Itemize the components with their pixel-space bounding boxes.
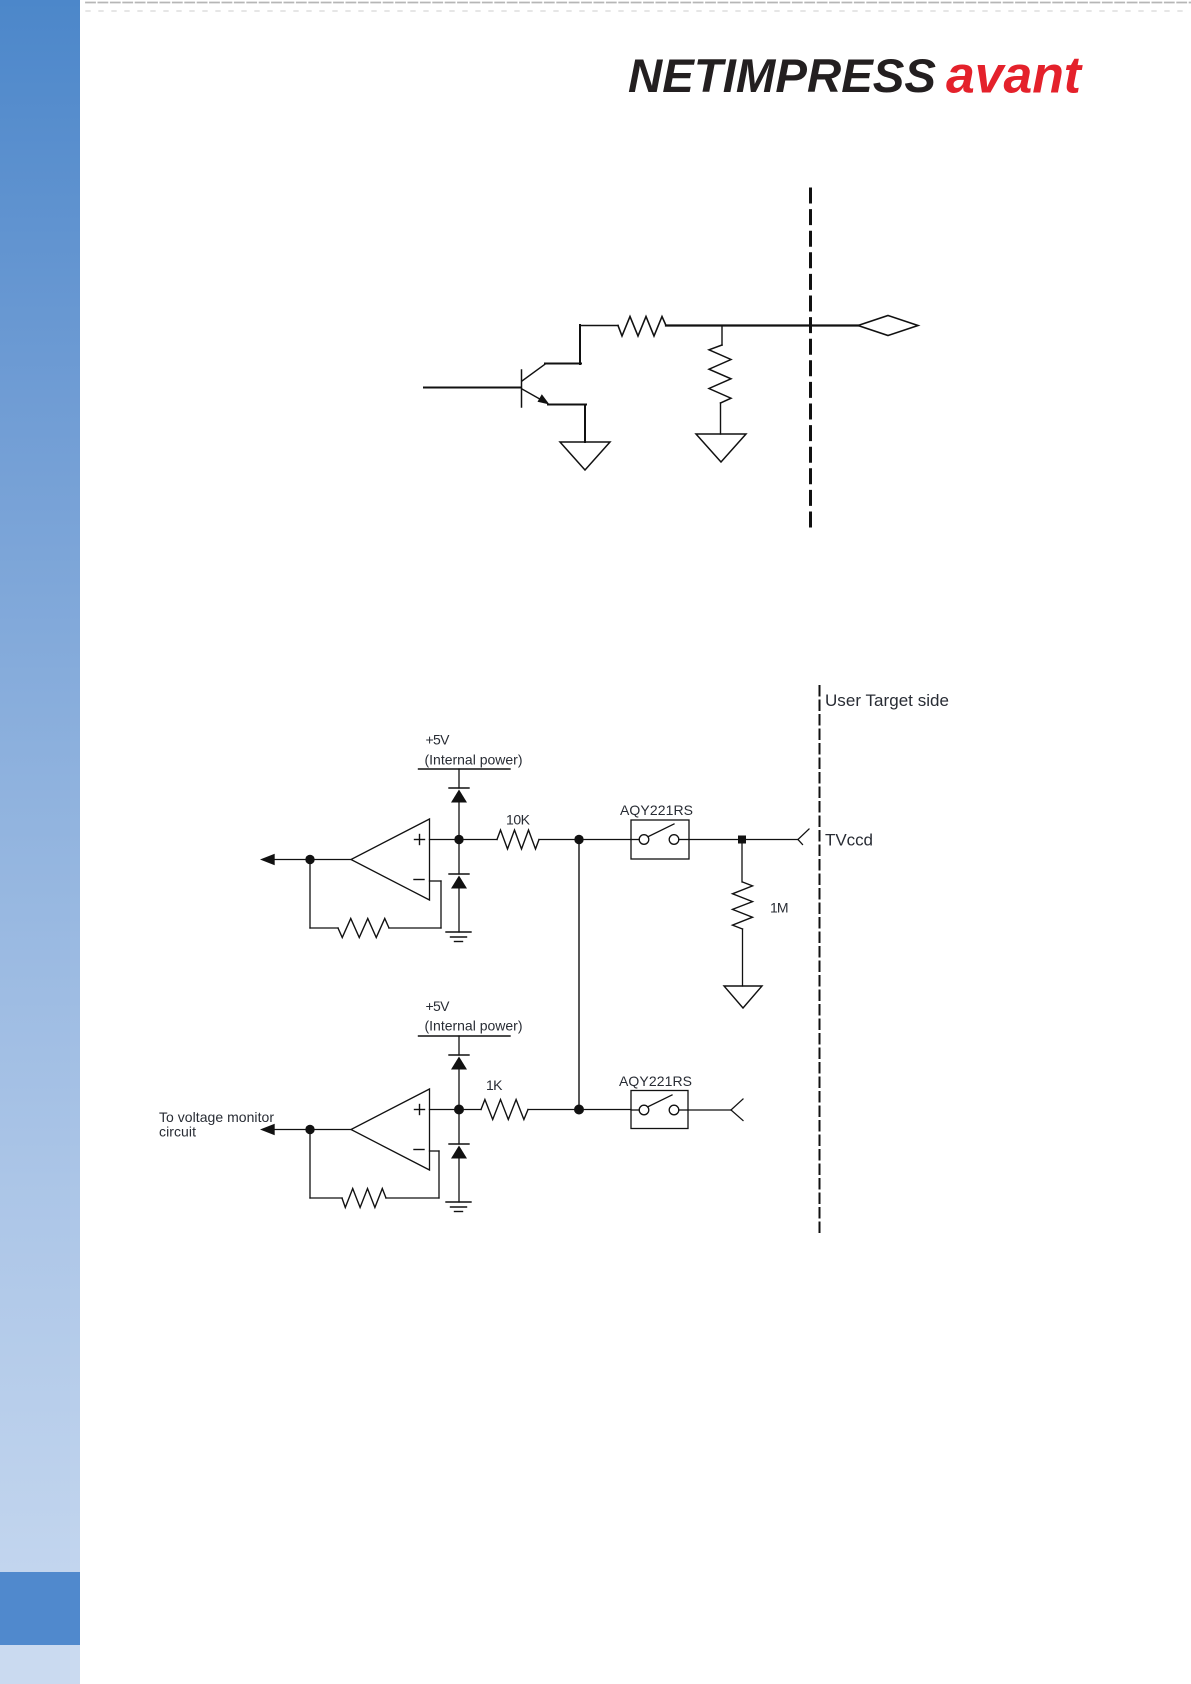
transistor Q1 base bar xyxy=(521,370,523,407)
svg-text:User Target side: User Target side xyxy=(825,691,949,710)
boundary dashed line (circuit 1) xyxy=(809,189,812,529)
sidebar gradient bar xyxy=(0,0,80,1572)
resistor R2 (pull-down, vertical) xyxy=(709,345,731,403)
diode D3 (clamp to +5V) xyxy=(449,1055,469,1105)
wire junction drop xyxy=(721,326,723,346)
logo NETIMPRESS avant xyxy=(0,0,1191,140)
node A (+input junction) xyxy=(454,835,463,844)
diode D4 (clamp to GND) xyxy=(449,1114,469,1202)
+5V power rail (upper) xyxy=(419,768,511,770)
wire emitter run xyxy=(548,405,586,443)
wire -input stub xyxy=(430,880,442,882)
ground (earth) under D4 xyxy=(446,1202,471,1212)
wire base input xyxy=(424,387,521,389)
ground (chassis triangle) under 1M xyxy=(724,986,762,1008)
sidebar bottom light block xyxy=(0,1645,80,1684)
node B (output junction) xyxy=(305,855,314,864)
ground (earth) under D2 xyxy=(446,932,471,942)
node D (1M junction, square) xyxy=(738,836,746,844)
resistor R6 (feedback U3) xyxy=(342,1189,386,1208)
svg-text:circuit: circuit xyxy=(159,1124,196,1140)
wire collector up xyxy=(580,325,618,364)
svg-text:1K: 1K xyxy=(486,1077,503,1093)
resistor R7 1K xyxy=(459,1100,579,1120)
node C (mid junction) xyxy=(574,835,583,844)
op-amp U1 minus xyxy=(414,879,424,881)
wire op-amp output xyxy=(310,859,351,861)
wire 1M branch xyxy=(741,840,743,883)
svg-text:(Internal power): (Internal power) xyxy=(425,751,523,767)
diode D1 (clamp to +5V) xyxy=(449,788,469,835)
pin TVccd chevron xyxy=(798,829,809,845)
wire to relay xyxy=(579,839,631,841)
node E (+input junction lower) xyxy=(454,1105,464,1115)
transistor Q1 emitter with arrow xyxy=(522,389,550,405)
feedback loop wires U3 xyxy=(310,1130,439,1199)
op-amp U1 triangle xyxy=(351,819,430,900)
wire rail stem xyxy=(458,769,460,788)
wire -input stub lower xyxy=(430,1150,440,1152)
wire bus between stages xyxy=(578,840,580,1111)
sidebar dark footer block xyxy=(0,1572,80,1645)
ground (chassis triangle) under emitter xyxy=(560,442,610,470)
node F (output junction lower) xyxy=(305,1125,314,1134)
op-amp U1 plus xyxy=(415,835,425,845)
svg-text:1M: 1M xyxy=(770,900,789,916)
svg-text:+5V: +5V xyxy=(426,732,451,748)
wire +input stub xyxy=(430,839,460,841)
pin chevron lower xyxy=(731,1099,743,1121)
diode D2 (clamp to GND) xyxy=(449,844,469,932)
svg-text:TVccd: TVccd xyxy=(825,831,873,850)
arrow out (to internal circuit) xyxy=(260,854,275,865)
wire to relay lower xyxy=(579,1109,631,1111)
svg-text:avant: avant xyxy=(946,47,1084,105)
wire 1M to ground xyxy=(742,929,744,986)
resistor R3 (feedback U1) xyxy=(338,919,389,938)
svg-text:+5V: +5V xyxy=(426,998,451,1014)
resistor R1 (series, horizontal) xyxy=(618,317,666,337)
arrow out (to voltage monitor) xyxy=(260,1124,275,1135)
+5V power rail (lower) xyxy=(419,1035,511,1037)
svg-text:AQY221RS: AQY221RS xyxy=(620,802,693,818)
svg-text:(Internal power): (Internal power) xyxy=(425,1017,523,1033)
op-amp U3 minus xyxy=(414,1149,424,1151)
wire to arrow lower xyxy=(264,1129,310,1131)
resistor R4 10K xyxy=(459,830,579,849)
boundary dashed line (circuit 2) xyxy=(819,686,821,1234)
relay U4 AQY221RS box xyxy=(631,1091,688,1129)
wire op-amp output lower xyxy=(310,1129,351,1131)
wire relay to target xyxy=(689,839,798,841)
op-amp U3 plus xyxy=(415,1105,425,1115)
wire to connector xyxy=(666,324,858,326)
wire +input stub lower xyxy=(430,1109,460,1111)
transistor Q1 collector xyxy=(522,364,581,382)
svg-text:NETIMPRESS: NETIMPRESS xyxy=(628,49,936,102)
wire to arrow xyxy=(264,859,310,861)
off-page connector diamond xyxy=(858,316,918,336)
feedback loop wires U1 xyxy=(310,860,441,929)
svg-text:AQY221RS: AQY221RS xyxy=(619,1073,692,1089)
node G (mid junction lower) xyxy=(574,1105,584,1115)
svg-text:10K: 10K xyxy=(506,811,531,827)
resistor R5 1M (vertical) xyxy=(733,882,753,929)
relay U2 AQY221RS box xyxy=(631,820,689,859)
wire relay to pin lower xyxy=(688,1109,731,1111)
wire rail stem lower xyxy=(458,1036,460,1055)
op-amp U3 triangle xyxy=(351,1089,430,1170)
ground (chassis triangle) under R2 xyxy=(696,434,746,462)
wire resistor to ground xyxy=(720,403,722,434)
